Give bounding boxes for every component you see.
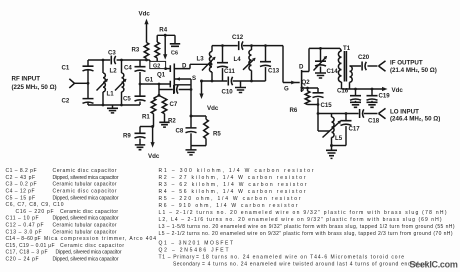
node: Vdc tap [200,80,203,83]
svg-text:C4 – 12 pF: C4 – 12 pF [6,189,35,195]
svg-text:C12 – 0.47 pF: C12 – 0.47 pF [6,223,44,229]
ground (tank1) [107,105,118,113]
ground (source network) [186,146,197,155]
resistor R4 [155,27,168,62]
wire: R1 bottom rail [140,126,153,128]
node: L4 top [250,44,253,47]
wire: tank1 bottom rail [88,104,140,106]
capacitor C18 (series, LO line) [360,109,380,125]
wire: middle tank bottom rail [202,80,266,82]
node: L3 bottom [211,80,214,83]
node: R1 bottom [151,125,154,128]
svg-text:Dipped, silvered mica capacito: Dipped, silvered mica capacitor [53,175,119,181]
svg-text:Mica compression trimmer, Arco: Mica compression trimmer, Arco 404 [44,236,156,242]
svg-text:R4 – 56 kilohm, 1/4 W carbon r: R4 – 56 kilohm, 1/4 W carbon resistor [159,189,306,195]
inductor L5 (variable, tapped) [323,114,343,146]
ground (C14) [315,73,326,78]
wire: left vertical rail [87,60,89,105]
svg-text:C6, C7, C8, C9, C10: C6, C7, C8, C9, C10 [6,202,64,208]
Vdc feed (below R1) [148,127,160,160]
svg-text:C16 – 220 pF: C16 – 220 pF [16,209,54,215]
svg-text:Dipped, silvered mica capacito: Dipped, silvered mica capacitor [56,250,122,256]
node: Q2 source [306,87,309,90]
IF output connector [379,61,386,71]
resistor R3 [132,43,149,61]
Vdc supply (top) [139,11,151,43]
PARTS LIST right column [159,168,455,267]
ground (R9) [135,145,145,150]
svg-text:C3 – 0.2 pF: C3 – 0.2 pF [6,182,37,188]
inductor L2 (variable) [97,60,118,105]
capacitor C14 (trimmer) [314,48,339,75]
svg-text:L5 – 2-1/2 turns no. 20 enamel: L5 – 2-1/2 turns no. 20 enameled wire on… [159,231,453,237]
svg-text:L3 – 1-5/8 turns no. 20 enamel: L3 – 1-5/8 turns no. 20 enameled wire on… [159,224,455,230]
wire: Q2 gate feed [283,46,300,83]
capacitor C5 [123,84,146,105]
wire: bias vertical from G1 [158,84,160,96]
capacitor R9 bypass [123,127,146,145]
wire: LO line [318,113,378,115]
svg-text:Secondary: Secondary [173,261,201,267]
capacitor C20 (series, IF out) [358,54,378,71]
ground (middle tank) [235,81,246,93]
arrow down to G2 [163,35,167,59]
svg-text:C1 – 8.2 pF: C1 – 8.2 pF [6,168,37,174]
ground (L5 tank) [326,146,337,159]
capacitor C15 [308,88,333,109]
svg-text:SeekIC.com: SeekIC.com [410,260,458,270]
capacitor C16 [337,88,361,103]
node: C11 top [221,44,224,47]
capacitor C7 (series) [159,85,191,108]
inductor L4 (variable) [234,46,256,81]
node: bias Y junction [158,94,161,97]
node: C15 bottom [317,103,320,106]
resistor R5 [191,116,221,146]
PARTS LIST left column [6,168,157,262]
svg-text:Ceramic disc capacitor: Ceramic disc capacitor [60,209,118,215]
capacitor C11 [217,46,235,81]
svg-text:C14 – 8–60 pF: C14 – 8–60 pF [6,236,41,242]
node: L1 bottom [120,104,123,107]
svg-text:R3 – 62 kilohm, 1/4 W carbon r: R3 – 62 kilohm, 1/4 W carbon resistor [159,182,307,188]
svg-text:C5 – 15 pF: C5 – 15 pF [6,195,36,201]
ground (R2) [159,122,169,127]
svg-text:C15, C19 – 0.01 μF: C15, C19 – 0.01 μF [6,243,55,249]
svg-text:Ceramic disc capacitor: Ceramic disc capacitor [53,168,117,174]
node: C16 top [354,88,357,91]
wire: L5 tank bottom [332,145,347,147]
svg-text:Dipped, silvered mica capacito: Dipped, silvered mica capacitor [53,216,119,222]
inductor L1 (variable) [107,60,127,105]
capacitor C12 (series, top rail) [232,34,244,50]
svg-text:R1 – 300 kilohm, 1/4 W carbon: R1 – 300 kilohm, 1/4 W carbon resistor [159,168,314,174]
transistor Q1 (3N201 dual-gate MOSFET) [157,63,211,93]
node: R4 top junction [164,34,167,37]
node: G2 gate corner [164,67,167,70]
Vdc feed (middle tank) [199,81,219,112]
capacitor C13 [260,46,280,81]
svg-text:= 18 turns no. 24 enameled wir: = 18 turns no. 24 enameled wire on T44-6… [196,254,404,260]
svg-text:Dipped, silvered mica capacito: Dipped, silvered mica capacitor [53,195,119,201]
label D of Q1 already above; middle tank top rail [212,45,283,47]
node: C7/source [190,88,193,91]
node: L2 top [102,59,105,62]
wire: T1 bottom rail to Vdc [342,88,384,90]
resistor R2 [159,96,176,125]
LO INPUT label [390,108,440,122]
LO input connector [379,108,386,118]
node: bias tap on G1 [158,83,161,86]
wire: tank1 top rail [88,60,150,61]
inductor L3 (variable, tapped) [197,46,216,81]
node: LO line left [317,112,320,115]
capacitor C10 (series, bottom rail) [222,77,234,96]
svg-text:L1 – 2-1/2 turns no. 20 enamel: L1 – 2-1/2 turns no. 20 enameled wire on… [159,210,447,216]
IF OUTPUT label [390,59,437,74]
resistor R6 [290,91,319,114]
node: C17 top [345,112,348,115]
capacitor C19 [367,89,391,102]
capacitor C6 (bypass) [170,35,180,56]
svg-text:Ceramic tubular capacitor: Ceramic tubular capacitor [53,223,117,229]
svg-text:C20 – 24 pF: C20 – 24 pF [6,257,39,263]
svg-text:Ceramic tubular capacitor: Ceramic tubular capacitor [53,229,117,235]
ground (C16) [350,102,361,107]
svg-text:L2, L4 – 2-1/6 turns no. 20 en: L2, L4 – 2-1/6 turns no. 20 enameled wir… [159,217,442,223]
resistor R1 [142,96,159,127]
svg-text:R5 – 220 ohm, 1/4 W carbon res: R5 – 220 ohm, 1/4 W carbon resistor [159,196,301,202]
svg-text:Q1 – 3N201 MOSFET: Q1 – 3N201 MOSFET [159,240,234,246]
gate arrowhead Q2 [291,81,296,85]
svg-text:Ceramic tubular capacitor: Ceramic tubular capacitor [53,182,117,188]
wire: G1 rail [140,83,170,85]
node: input tap [87,82,90,85]
transistor Q2 (2N5486 JFET) [299,48,310,93]
node: source network top [190,115,193,118]
RF INPUT label [12,76,57,92]
wire: Q1 source vertical [190,79,192,116]
RF input connector [69,79,88,88]
node: C13 top [264,44,267,47]
node: drain tap on L3 [210,63,213,66]
transformer T1 [338,45,361,89]
capacitor C2 [62,98,94,105]
node: L1 top [120,59,123,62]
capacitor C17 [341,114,361,146]
svg-text:Ceramic disc capacitor: Ceramic disc capacitor [60,243,124,249]
svg-text:Q2 – 2N5486 JFET: Q2 – 2N5486 JFET [159,247,229,253]
node: C19 top [371,88,374,91]
node: C4/C5 tap [139,83,142,86]
capacitor C8 [176,116,197,146]
svg-text:Dipped, silvered mica capacito: Dipped, silvered mica capacitor [53,257,119,263]
wire: IF tank top rail [309,47,340,49]
capacitor C1 [62,65,94,72]
svg-text:C13 – 3.0 pF: C13 – 3.0 pF [6,229,42,235]
node: L2 bottom [102,104,105,107]
svg-text:T1 – Primary: T1 – Primary [159,254,196,260]
ground (C19) [367,102,378,107]
node: L5 bottom [330,144,333,147]
node: R3 bottom on rail [145,59,148,62]
svg-text:Ceramic disc capacitor: Ceramic disc capacitor [53,189,117,195]
svg-text:C2 – 43 pF: C2 – 43 pF [6,175,36,181]
wire: G2 to gate [166,68,171,70]
node: L4 bottom [250,80,253,83]
capacitor C3 (series, top rail) [108,50,116,65]
wire: down to LO line and L5 tap [318,105,330,132]
svg-text:R6 – 910 ohm, 1/4 W carbon res: R6 – 910 ohm, 1/4 W carbon resistor [159,203,298,209]
svg-text:= 4 turns no. 24 enameled wir: = 4 turns no. 24 enameled wire twisted a… [202,261,428,267]
svg-text:C17, C18 – 3 pF: C17, C18 – 3 pF [6,250,48,256]
svg-text:C11 – 10 pF: C11 – 10 pF [6,216,39,222]
svg-text:R2 – 27 kilohm, 1/4 W carbon r: R2 – 27 kilohm, 1/4 W carbon resistor [159,175,306,181]
wire: R4 top rail [157,34,175,36]
capacitor C4 [124,60,146,84]
node G2 (boxed label) [150,61,166,69]
Vdc feed (T1) [382,87,403,94]
node: C14 top [319,47,322,50]
